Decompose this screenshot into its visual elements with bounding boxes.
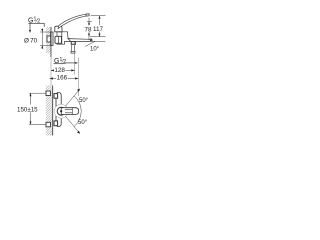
leader underline of G1/2 (29, 22, 45, 24)
spout (side view) (68, 39, 92, 42)
pivot outer circle (54, 104, 68, 118)
swing arc (74, 96, 81, 127)
10 degree leader line (85, 41, 95, 46)
leader to outlet ext (66, 62, 78, 64)
in-wall square bottom (plan) (46, 122, 50, 127)
dimension 150+-15 extension top (29, 92, 46, 94)
svg-text:10°: 10° (90, 46, 100, 52)
swing line up 50deg (65, 89, 79, 106)
label G1/2 (top left) (28, 17, 40, 25)
lever inner detail (65, 110, 72, 113)
wall face line + extension down to plan view (50, 27, 52, 57)
pivot center dot (60, 110, 62, 112)
dimension dia70: top extension (40, 31, 51, 33)
extension vertical from lever tip (plan) (77, 58, 79, 96)
union nut (side view) (55, 36, 62, 43)
in-wall square top (plan) (46, 91, 50, 96)
svg-text:78: 78 (85, 27, 93, 34)
label 150+-15 (17, 105, 41, 114)
outlet tube cap (71, 51, 75, 53)
lever tip block (86, 14, 89, 16)
label dia70 (24, 38, 38, 45)
dimension 128 (51, 69, 75, 71)
svg-text:50°: 50° (79, 98, 89, 104)
dimension 150+-15 extension bottom (29, 124, 46, 126)
cartridge dome box (55, 26, 62, 32)
wall hatch band (plan view) (46, 86, 53, 136)
extension vertical from shower outlet (74, 53, 76, 74)
in-wall square (side view) (47, 36, 51, 42)
leader drop left with arrow (29, 23, 31, 29)
wall hatch band (side view) (46, 27, 51, 54)
spout end cap (90, 39, 92, 42)
extension line lever underside tick (87, 21, 92, 23)
body cylinder (plan view) (56, 92, 61, 126)
svg-text:50°: 50° (78, 120, 88, 126)
lever (plan view) (61, 108, 78, 115)
dimension 117 (99, 16, 101, 37)
extension line spout outlet level (90, 36, 106, 38)
dimension 166 (50, 78, 79, 80)
label G1/2 (below side view) (54, 57, 66, 65)
spout underside line extended (92, 40, 106, 42)
dimension dia70: dim line with arrows (41, 32, 43, 45)
dimension dia70: bottom extension (40, 44, 51, 46)
pivot middle circle (57, 107, 65, 115)
leader drop right into wall (43, 23, 45, 27)
wall face line (plan view) (52, 86, 54, 136)
svg-text:166: 166 (57, 75, 68, 82)
extension line from lever tip (91, 15, 106, 17)
label 10deg (90, 46, 100, 52)
svg-text:150±15: 150±15 (17, 106, 38, 113)
body (side view) (57, 32, 71, 44)
swing line down 50deg (65, 116, 79, 133)
shower outlet block under spout (71, 41, 76, 45)
svg-text:Ø 70: Ø 70 (24, 38, 38, 45)
lever handle (side view) (58, 14, 89, 29)
label 50deg top (79, 98, 89, 104)
svg-text:128: 128 (54, 67, 65, 74)
dimension 150+-15 line (30, 93, 32, 124)
leader underline (54, 63, 66, 65)
union nut top (plan) (54, 94, 58, 99)
cartridge section line (61, 32, 63, 44)
dimension 78 (outside arrows) (88, 22, 90, 37)
outlet tube (71, 45, 73, 53)
svg-text:117: 117 (93, 26, 104, 33)
label 50deg bottom (78, 120, 88, 126)
escutcheon (side view) (51, 32, 53, 45)
union nut bottom (plan) (54, 121, 58, 126)
